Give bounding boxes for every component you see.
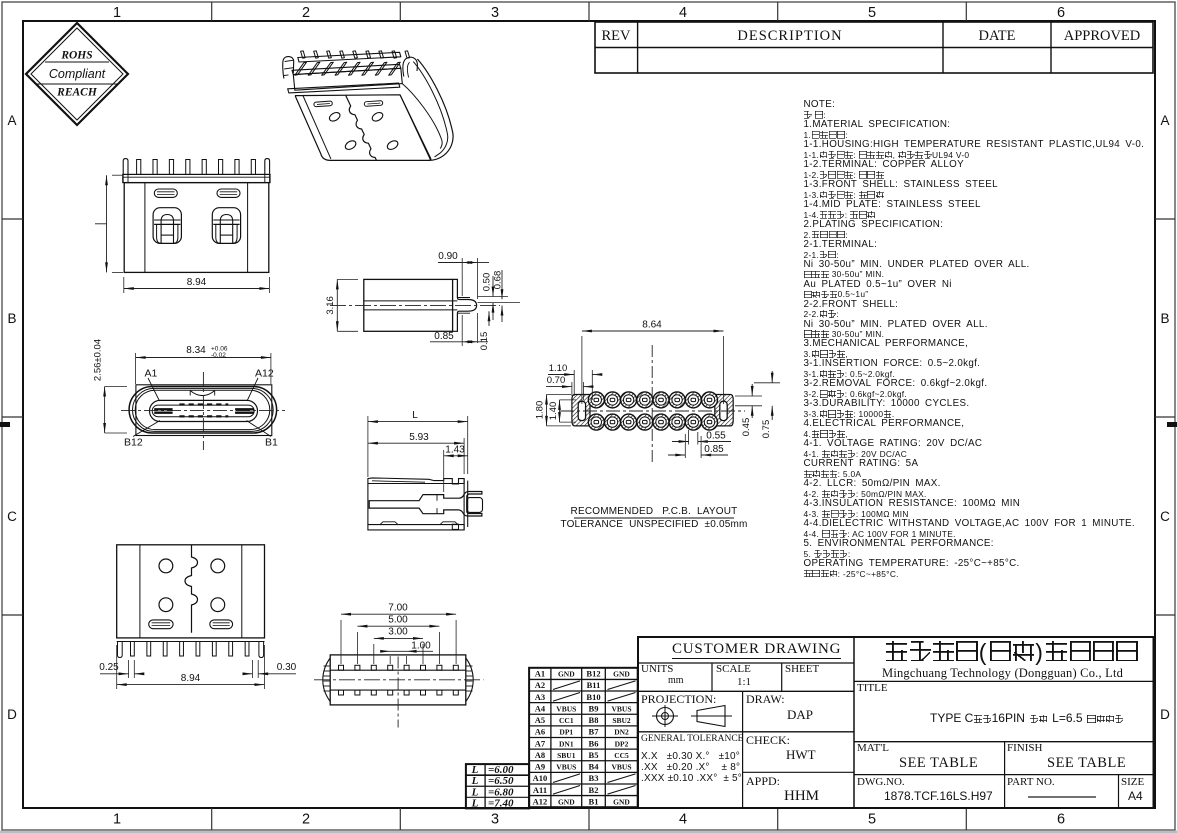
svg-text:B12: B12 <box>124 437 143 449</box>
svg-text:A2: A2 <box>535 680 545 690</box>
svg-text:B5: B5 <box>589 750 599 760</box>
svg-text:1.80: 1.80 <box>535 401 546 420</box>
dimension 0.50 <box>478 296 509 298</box>
dimension 8.94 back view <box>116 645 118 689</box>
svg-text:RECOMMENDED P.C.B. LAYOUT: RECOMMENDED P.C.B. LAYOUT <box>571 506 738 517</box>
bottom view right bulge <box>466 658 473 702</box>
dimension 1.00 <box>389 656 391 664</box>
svg-text:1.00: 1.00 <box>411 641 431 652</box>
svg-text:B10: B10 <box>586 692 600 702</box>
face view hidden contacts dashed <box>179 403 228 405</box>
svg-text:B1: B1 <box>265 437 278 449</box>
dimension 0.90 <box>461 258 463 296</box>
svg-text:D: D <box>1160 707 1170 722</box>
svg-text:GND: GND <box>558 670 575 679</box>
svg-text:DP1: DP1 <box>559 728 573 737</box>
dimension 1.43 <box>443 450 445 492</box>
terminal body <box>364 279 453 331</box>
face view top notch <box>190 391 215 396</box>
isometric 3D view of connector <box>283 51 453 160</box>
svg-text:DN1: DN1 <box>559 739 574 748</box>
svg-text:0.15: 0.15 <box>479 332 490 351</box>
svg-text:A3: A3 <box>535 692 545 702</box>
svg-text:APPROVED: APPROVED <box>1064 28 1141 44</box>
svg-text:B3: B3 <box>589 773 599 783</box>
dimension 3.00 <box>373 644 375 664</box>
back view slots <box>149 620 173 629</box>
svg-text:5: 5 <box>868 5 876 21</box>
svg-text:1: 1 <box>113 812 121 828</box>
iso comb rail <box>298 52 401 62</box>
projection cone <box>697 706 725 727</box>
dimension L <box>367 416 369 477</box>
pin assignment table <box>529 668 638 807</box>
iso right ear <box>403 57 418 76</box>
svg-text:B7: B7 <box>589 727 600 737</box>
svg-text:B12: B12 <box>586 669 600 679</box>
dimension 1.10 <box>573 370 575 396</box>
iso lower pin teeth <box>295 62 307 75</box>
iso flange front <box>293 68 402 90</box>
svg-text:A11: A11 <box>533 785 547 795</box>
dimension 0.85 <box>461 315 463 346</box>
svg-text:8.94: 8.94 <box>181 673 201 684</box>
terminal detail view <box>325 251 520 350</box>
part number placeholder line <box>1028 796 1096 798</box>
svg-text:5.00: 5.00 <box>388 615 408 626</box>
svg-text:A7: A7 <box>535 738 546 748</box>
back view holes <box>159 559 173 573</box>
svg-text:0.45: 0.45 <box>741 418 752 437</box>
face view shell ovals <box>129 387 277 434</box>
front view pins <box>123 159 128 175</box>
dimension 3.16 <box>336 279 338 331</box>
svg-text:CC5: CC5 <box>614 751 629 760</box>
svg-text:8.34: 8.34 <box>186 345 206 356</box>
back view of connector <box>99 545 296 689</box>
svg-text:7.00: 7.00 <box>388 603 408 614</box>
svg-text:0.70: 0.70 <box>547 375 566 386</box>
section terminal <box>369 492 482 517</box>
pcb left end pad <box>572 395 590 426</box>
title block texts <box>672 642 841 659</box>
svg-text:A6: A6 <box>535 727 545 737</box>
face view tongue <box>150 400 258 421</box>
svg-text:0.50: 0.50 <box>482 273 493 292</box>
bottom view pins <box>339 665 344 670</box>
svg-text:1.10: 1.10 <box>549 363 568 374</box>
svg-text:DN2: DN2 <box>614 728 629 737</box>
svg-text:A4: A4 <box>535 703 546 713</box>
section side view <box>368 410 483 530</box>
third angle projection symbol <box>657 708 674 725</box>
front view body <box>124 183 269 273</box>
iso face holes <box>328 111 342 123</box>
iso main face <box>295 95 430 161</box>
svg-text:5: 5 <box>868 812 876 828</box>
dimension 8.94 front view <box>123 277 125 293</box>
svg-text:4: 4 <box>679 5 687 21</box>
svg-text:VBUS: VBUS <box>611 763 631 772</box>
svg-text:L: L <box>412 410 418 421</box>
bottom view body <box>330 655 466 705</box>
svg-text:8.94: 8.94 <box>187 277 207 288</box>
notes text block <box>804 100 836 110</box>
svg-text:0.30: 0.30 <box>277 662 297 673</box>
svg-text:SBU2: SBU2 <box>612 716 631 725</box>
dimension 8.64 <box>581 336 583 404</box>
svg-text:0.85: 0.85 <box>704 444 724 455</box>
svg-text:0.85: 0.85 <box>434 331 454 342</box>
dimension 0.68 <box>501 270 503 299</box>
dimension 2.56±0.04 <box>104 387 106 434</box>
front view top slots <box>154 189 177 197</box>
svg-text:A: A <box>1160 113 1169 128</box>
revision table <box>595 22 1153 73</box>
svg-text:L: L <box>471 797 479 809</box>
face view centre lines <box>202 372 204 450</box>
front view flange bar <box>123 174 270 182</box>
svg-text:CC1: CC1 <box>559 716 574 725</box>
svg-text:REACH: REACH <box>56 87 98 99</box>
bottom view of connector <box>314 603 484 728</box>
face view side contacts <box>154 408 172 410</box>
bottom view left bulge <box>323 658 330 702</box>
window edge strip <box>0 831 1177 833</box>
svg-text:5.93: 5.93 <box>409 432 429 443</box>
svg-text:A1: A1 <box>145 368 158 380</box>
svg-text:2: 2 <box>302 5 310 21</box>
svg-text:=7.40: =7.40 <box>488 797 514 809</box>
svg-text:A5: A5 <box>535 715 545 725</box>
section terminal tip <box>467 498 483 513</box>
svg-text:2: 2 <box>302 812 310 828</box>
ROHS Compliant REACH diamond logo <box>26 23 128 125</box>
svg-text:3.00: 3.00 <box>388 627 408 638</box>
svg-text:B4: B4 <box>589 762 600 772</box>
svg-text:A12: A12 <box>533 796 548 806</box>
iso flange top <box>292 64 401 74</box>
svg-text:SBU1: SBU1 <box>557 751 576 760</box>
svg-text:1.43: 1.43 <box>445 445 465 456</box>
terminal stem <box>453 279 477 331</box>
svg-text:ROHS: ROHS <box>60 50 92 62</box>
iso left ear <box>283 57 294 79</box>
svg-text:B8: B8 <box>589 715 599 725</box>
back view body <box>117 545 265 638</box>
face view flange rect <box>136 385 272 436</box>
svg-text:0.90: 0.90 <box>438 251 458 262</box>
svg-text:B: B <box>1160 311 1169 326</box>
dimension 0.75 <box>754 382 780 384</box>
iso centre seam <box>346 96 377 161</box>
svg-text:B9: B9 <box>589 703 599 713</box>
dimension 0.55 <box>688 430 690 445</box>
svg-text:A: A <box>7 113 16 128</box>
svg-text:1: 1 <box>113 5 121 21</box>
back view pins <box>117 641 265 643</box>
title block <box>638 637 1154 808</box>
pcb pads <box>588 392 604 408</box>
svg-text:B11: B11 <box>587 680 601 690</box>
svg-text:VBUS: VBUS <box>556 763 576 772</box>
svg-text:2.56±0.04: 2.56±0.04 <box>93 339 104 381</box>
svg-text:GND: GND <box>613 670 630 679</box>
front view of connector <box>95 159 270 293</box>
svg-text:6: 6 <box>1057 5 1065 21</box>
iso upper pin teeth <box>301 51 306 58</box>
svg-text:3: 3 <box>491 812 499 828</box>
bottom view centre lines <box>314 679 484 681</box>
svg-text:B6: B6 <box>589 738 599 748</box>
dimension 0.45 <box>735 395 762 397</box>
svg-text:0.75: 0.75 <box>761 420 772 439</box>
svg-text:Compliant: Compliant <box>49 67 106 81</box>
svg-text:B: B <box>7 311 16 326</box>
dimension 0.85 <box>684 434 686 458</box>
svg-text:VBUS: VBUS <box>556 704 576 713</box>
pcb centre lines <box>651 345 653 462</box>
svg-text:A8: A8 <box>535 750 545 760</box>
svg-text:GND: GND <box>613 797 630 806</box>
receptacle face view <box>93 339 286 450</box>
back view seam <box>185 545 198 633</box>
svg-text:C: C <box>1160 509 1170 524</box>
recommended PCB layout <box>535 320 781 531</box>
iso flange lip <box>288 83 400 93</box>
dimension 8.34 <box>135 353 137 384</box>
dimension 1.80 <box>547 394 572 396</box>
iso face slots <box>314 101 333 107</box>
svg-text:0.68: 0.68 <box>493 271 504 290</box>
svg-text:4: 4 <box>679 812 687 828</box>
terminal centre line <box>330 304 500 306</box>
svg-text:B1: B1 <box>589 796 599 806</box>
dimension 5.93 <box>463 438 465 474</box>
svg-text:3: 3 <box>491 5 499 21</box>
svg-text:0.55: 0.55 <box>706 431 726 442</box>
svg-text:C: C <box>7 509 17 524</box>
svg-text:GND: GND <box>558 797 575 806</box>
svg-text:0.25: 0.25 <box>99 662 119 673</box>
section bottom strip <box>368 525 464 530</box>
svg-text:TOLERANCE UNSPECIFIED ±0.05m: TOLERANCE UNSPECIFIED ±0.05mm <box>560 519 747 530</box>
svg-text:A1: A1 <box>535 669 545 679</box>
svg-text:VBUS: VBUS <box>611 704 631 713</box>
svg-text:B2: B2 <box>589 785 599 795</box>
svg-text:1.40: 1.40 <box>548 402 559 421</box>
svg-text:DP2: DP2 <box>615 739 629 748</box>
front view latch windows <box>153 208 181 244</box>
svg-text:REV: REV <box>602 28 632 44</box>
svg-text:A9: A9 <box>535 762 545 772</box>
svg-text:A10: A10 <box>533 773 548 783</box>
dimension 7.00 <box>340 620 342 664</box>
front view height dimension <box>106 175 108 272</box>
svg-text:-0.02: -0.02 <box>211 352 226 359</box>
section top strip <box>368 478 464 484</box>
iso right shell panel <box>417 59 453 160</box>
svg-text:3.16: 3.16 <box>325 296 336 315</box>
pcb right end pad <box>715 395 733 426</box>
svg-text:DATE: DATE <box>978 28 1015 44</box>
svg-text:DESCRIPTION: DESCRIPTION <box>737 28 842 44</box>
dimension 5.00 <box>356 632 358 664</box>
svg-text:6: 6 <box>1057 812 1065 828</box>
L value table <box>466 764 529 809</box>
section right edge <box>467 481 469 527</box>
svg-text:8.64: 8.64 <box>642 320 662 331</box>
dimension 0.15 <box>488 311 490 326</box>
dimension 1.40 <box>560 399 577 401</box>
dimension 0.70 <box>571 382 573 396</box>
svg-text:D: D <box>7 707 17 722</box>
